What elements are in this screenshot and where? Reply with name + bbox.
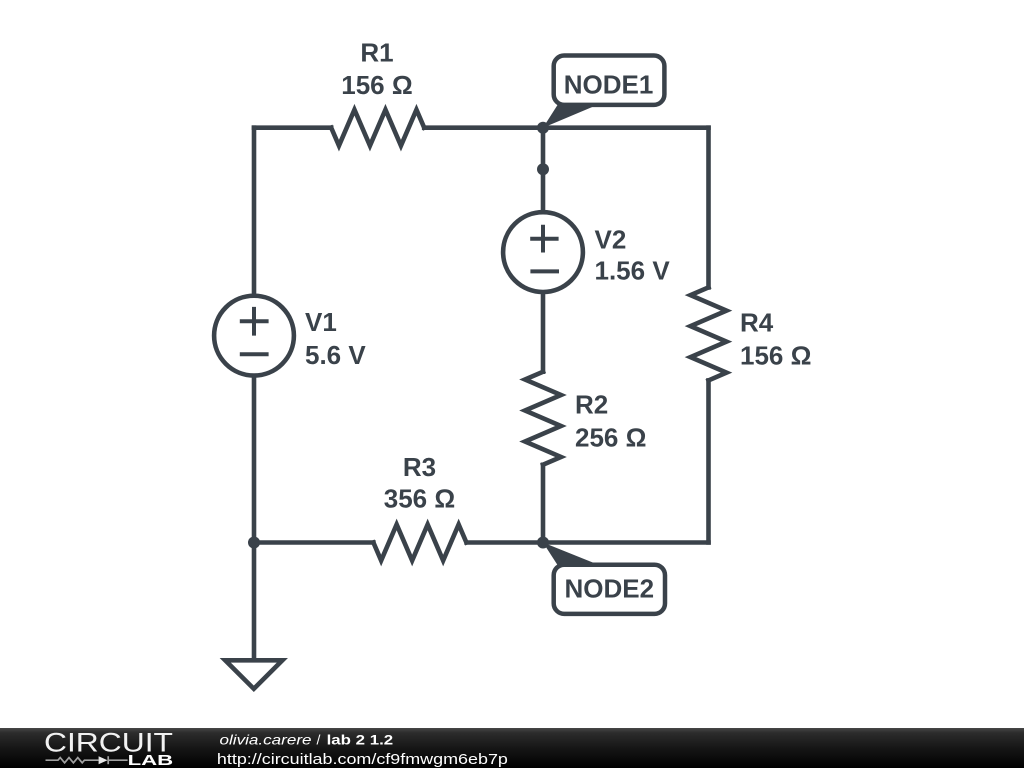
CircuitLab logo diode triangle [99, 756, 108, 764]
wire: middle vertical (NODE1 to R2 top) [541, 128, 546, 372]
svg-text:LAB: LAB [128, 753, 174, 768]
voltage source V1 plus sign [240, 307, 269, 336]
svg-text:156 Ω: 156 Ω [341, 70, 412, 100]
wire: bottom horizontal (left corner to R3) [254, 540, 373, 545]
svg-text:1.56 V: 1.56 V [595, 256, 671, 286]
wire: right vertical (R4 bottom to bottom corner) [706, 380, 711, 542]
svg-text:NODE1: NODE1 [564, 70, 654, 100]
junction dot at NODE1 [537, 122, 549, 134]
junction dot above V2 [537, 163, 549, 175]
resistor R1 [331, 110, 424, 146]
svg-text:R2: R2 [575, 390, 608, 420]
node NODE2 callout box [554, 565, 665, 614]
wire: bottom horizontal (R3 to right corner) [467, 540, 709, 545]
voltage source V1 body [214, 296, 294, 376]
CircuitLab logo resistor-diode squiggle [46, 756, 128, 764]
svg-text:NODE2: NODE2 [565, 573, 655, 603]
svg-text:156 Ω: 156 Ω [740, 340, 811, 370]
svg-text:/: / [317, 732, 321, 748]
voltage source V2 minus sign [530, 269, 559, 273]
wire: right vertical (top corner to R4 top) [706, 128, 711, 288]
wire: left vertical (top corner through V1 to bottom corner) [252, 128, 257, 543]
voltage source V2 body [503, 212, 583, 292]
svg-text:5.6 V: 5.6 V [305, 340, 366, 370]
svg-text:V2: V2 [595, 225, 627, 255]
wire: top horizontal (R1 to right corner) [424, 125, 708, 130]
junction dot bottom-left corner [248, 537, 260, 549]
wire: ground stem [252, 543, 257, 661]
node NODE1 callout tail [543, 105, 597, 128]
wire: top horizontal (left segment to R1) [254, 125, 331, 130]
svg-text:R4: R4 [740, 308, 774, 338]
svg-text:256 Ω: 256 Ω [575, 422, 646, 452]
node NODE1 callout box [554, 56, 665, 105]
node NODE2 callout tail [543, 543, 599, 566]
svg-text:lab 2 1.2: lab 2 1.2 [327, 732, 394, 748]
svg-text:http://circuitlab.com/cf9fmwgm: http://circuitlab.com/cf9fmwgm6eb7p [217, 752, 508, 768]
resistor R2 [525, 372, 561, 465]
voltage source V2 plus sign [530, 225, 558, 253]
voltage source V1 minus sign [240, 352, 269, 356]
resistor R4 [691, 287, 727, 380]
wire: middle vertical (R2 bottom to NODE2) [541, 465, 546, 543]
svg-text:V1: V1 [305, 307, 337, 337]
svg-text:R1: R1 [360, 38, 393, 68]
ground symbol [225, 660, 282, 689]
resistor R3 [373, 525, 466, 561]
svg-text:356 Ω: 356 Ω [384, 484, 455, 514]
svg-text:R3: R3 [403, 452, 436, 482]
svg-text:olivia.carere: olivia.carere [220, 732, 312, 748]
junction dot at NODE2 [537, 537, 549, 549]
footer bar [0, 728, 1024, 768]
